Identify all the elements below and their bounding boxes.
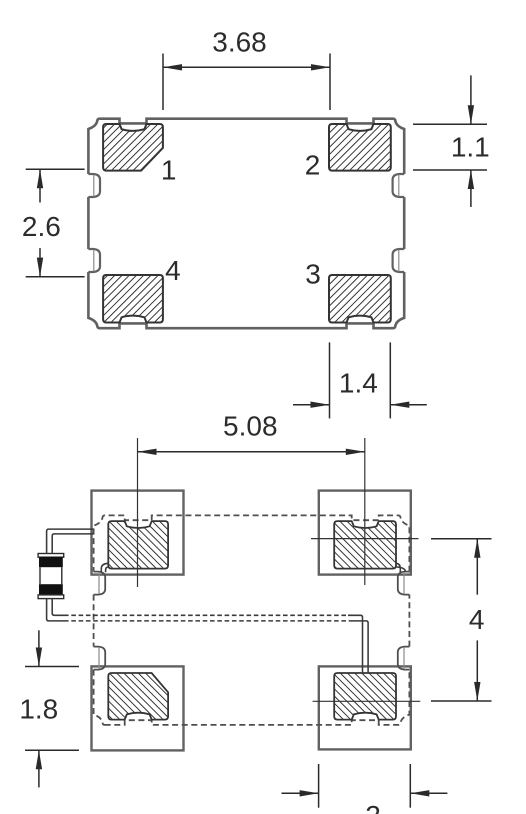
svg-text:5.08: 5.08 — [223, 411, 278, 442]
land square top-left — [92, 491, 184, 575]
svg-text:1: 1 — [161, 154, 177, 185]
package outline — [88, 119, 404, 329]
dimension 1.1 — [413, 75, 487, 207]
svg-text:4: 4 — [165, 255, 181, 286]
dimension 1.4 — [293, 342, 427, 418]
center line top-right pad — [364, 438, 366, 585]
center line horizontal top-right pad — [311, 538, 419, 540]
center line horizontal bottom-right pad — [313, 700, 421, 702]
castellations on dashed outline — [94, 572, 410, 670]
svg-text:1.4: 1.4 — [339, 367, 378, 398]
elbow top-left pad to castellation — [101, 563, 108, 572]
svg-text:4: 4 — [469, 604, 485, 635]
hatched pads of land pattern — [108, 521, 396, 720]
land square bottom-left — [92, 666, 184, 750]
component (chip capacitor) — [38, 554, 64, 599]
svg-text:2.6: 2.6 — [22, 211, 61, 242]
dimension 2.6 — [26, 169, 85, 276]
trace component to bottom-right pad — [47, 599, 369, 673]
svg-text:3: 3 — [305, 259, 321, 290]
svg-text:1.1: 1.1 — [451, 132, 490, 163]
package outline dashed + pads (flipped copy) — [94, 515, 410, 725]
land square bottom-right — [319, 666, 411, 749]
land square top-right — [319, 491, 411, 575]
svg-text:2: 2 — [305, 150, 321, 181]
dimension 3.68 — [163, 54, 330, 111]
dimension 5.08 — [138, 449, 365, 455]
trace top-right pad to right castellation — [396, 563, 405, 572]
dimension 1.8 — [25, 630, 79, 787]
svg-text:2: 2 — [365, 800, 381, 814]
castellations — [88, 174, 404, 272]
dimension 4 — [431, 539, 492, 701]
dimension 2 (clipped at bottom) — [282, 764, 448, 808]
package outline dashed — [94, 515, 410, 725]
svg-text:1.8: 1.8 — [19, 693, 58, 724]
svg-text:3.68: 3.68 — [212, 26, 267, 57]
pads — [103, 124, 391, 323]
center line top-left pad — [137, 438, 139, 587]
trace component to top-left pad — [47, 529, 94, 553]
